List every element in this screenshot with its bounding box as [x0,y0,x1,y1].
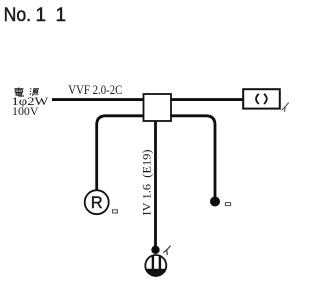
svg-text:VVF 2.0-2C: VVF 2.0-2C [68,82,122,97]
switch i (filled dot above pendant) [151,246,159,254]
label ro (katakana) at switch [225,203,230,206]
power source label 1φ2W 100V [12,96,49,118]
wire: box right to switch ro (down-right branch) [158,116,215,197]
title No. 11 [4,5,66,26]
label i (katakana) at pendant switch [163,246,170,256]
ceiling rose box (rect with parentheses) [243,89,280,108]
svg-text:1: 1 [56,5,67,26]
wire: box left to lamp R (down-left branch) [97,116,157,191]
label i (katakana) at ceiling rose [282,103,289,112]
power source kanji 源 [30,88,39,96]
label ro (katakana) at lamp R [113,210,118,213]
junction box [144,94,172,121]
svg-text:No.: No. [4,5,32,26]
power source kanji 電 [14,87,23,96]
svg-text:100V: 100V [12,106,39,118]
lamp receptacle R [85,190,109,214]
wire: power feed horizontal [52,98,244,101]
svg-text:IV 1.6 (E19): IV 1.6 (E19) [141,149,153,215]
wire: box bottom to pendant switch [154,120,157,247]
pendant light (circle with bars, filled bottom) [145,255,166,276]
svg-text:1: 1 [36,5,47,26]
svg-text:R: R [91,194,103,212]
switch ro (filled dot) [210,197,220,207]
